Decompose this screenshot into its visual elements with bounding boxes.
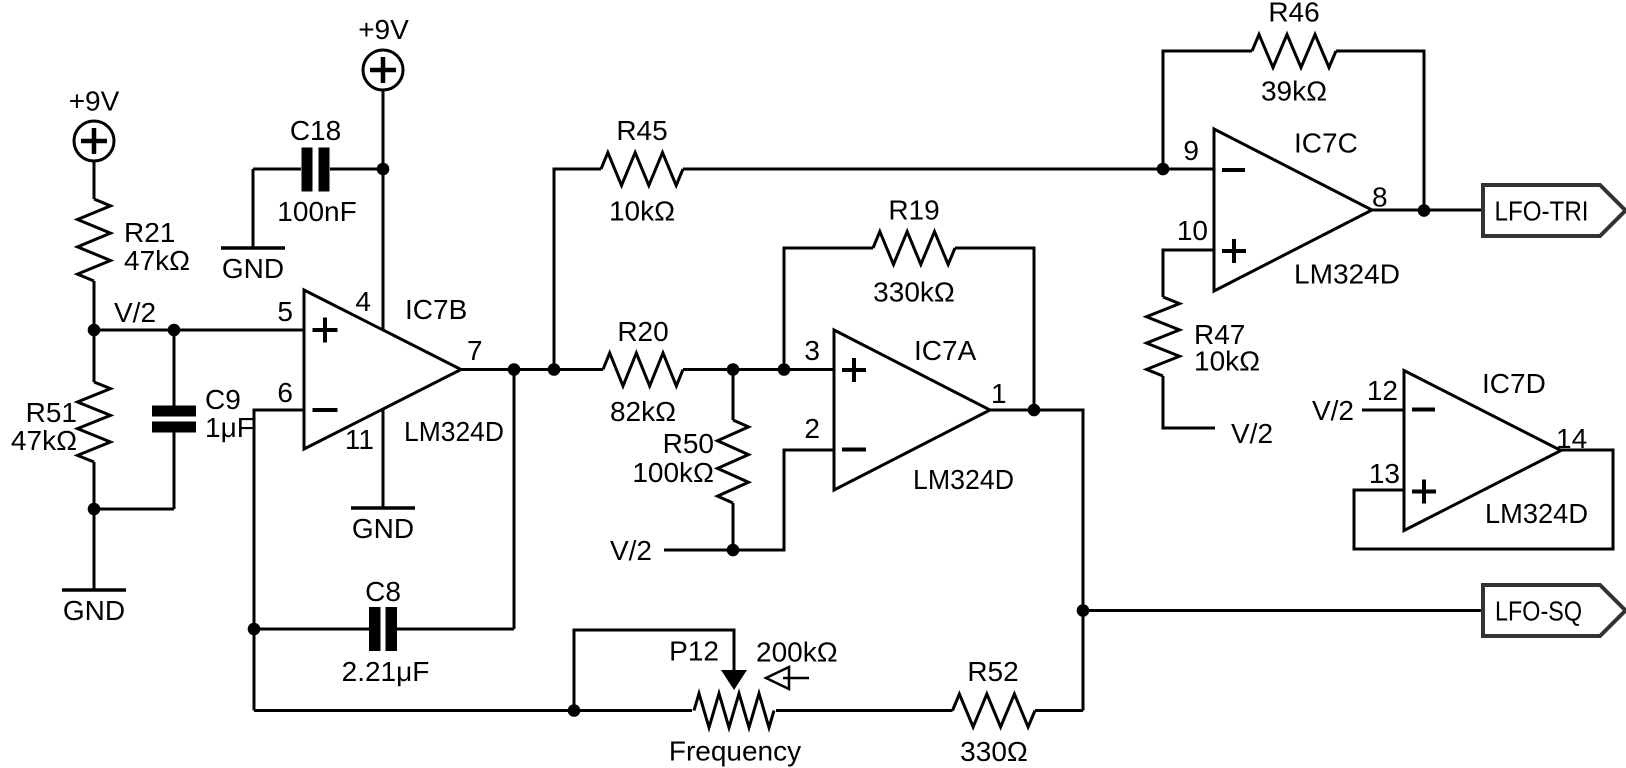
svg-text:11: 11 <box>345 424 374 455</box>
svg-text:330kΩ: 330kΩ <box>873 277 955 308</box>
svg-text:V/2: V/2 <box>114 297 156 328</box>
svg-text:13: 13 <box>1369 458 1400 489</box>
svg-text:LM324D: LM324D <box>1294 259 1400 290</box>
svg-text:82kΩ: 82kΩ <box>610 396 676 427</box>
svg-text:12: 12 <box>1367 375 1398 406</box>
svg-text:7: 7 <box>467 335 483 366</box>
svg-text:R19: R19 <box>888 195 939 226</box>
svg-text:LFO-TRI: LFO-TRI <box>1495 196 1589 227</box>
svg-text:+9V: +9V <box>358 14 409 45</box>
svg-text:V/2: V/2 <box>1231 418 1273 449</box>
svg-text:8: 8 <box>1372 182 1388 213</box>
svg-text:R21: R21 <box>124 217 175 248</box>
svg-text:C8: C8 <box>365 576 401 607</box>
svg-text:2.21μF: 2.21μF <box>342 656 430 687</box>
svg-text:10kΩ: 10kΩ <box>609 196 675 227</box>
svg-text:4: 4 <box>355 286 371 317</box>
svg-text:47kΩ: 47kΩ <box>124 245 190 276</box>
svg-text:6: 6 <box>277 377 293 408</box>
svg-text:100kΩ: 100kΩ <box>632 457 714 488</box>
svg-text:P12: P12 <box>669 636 719 667</box>
svg-text:LM324D: LM324D <box>913 464 1014 495</box>
svg-text:330Ω: 330Ω <box>960 736 1028 767</box>
svg-text:R46: R46 <box>1268 0 1319 28</box>
svg-text:3: 3 <box>804 335 820 366</box>
svg-text:+9V: +9V <box>69 86 120 117</box>
svg-text:200kΩ: 200kΩ <box>756 637 838 668</box>
svg-text:R20: R20 <box>617 316 668 347</box>
svg-text:C18: C18 <box>290 115 341 146</box>
svg-text:Frequency: Frequency <box>669 736 801 767</box>
svg-text:2: 2 <box>804 413 820 444</box>
svg-text:1: 1 <box>991 378 1007 409</box>
svg-text:R52: R52 <box>967 656 1018 687</box>
svg-text:GND: GND <box>222 253 284 284</box>
svg-text:100nF: 100nF <box>277 196 356 227</box>
svg-text:IC7A: IC7A <box>914 335 977 366</box>
svg-text:47kΩ: 47kΩ <box>11 425 77 456</box>
svg-text:LM324D: LM324D <box>404 416 504 447</box>
svg-text:10: 10 <box>1177 215 1208 246</box>
svg-text:LM324D: LM324D <box>1485 498 1588 529</box>
svg-text:R51: R51 <box>26 397 77 428</box>
svg-text:1μF: 1μF <box>205 412 254 443</box>
svg-text:R45: R45 <box>616 115 667 146</box>
svg-text:IC7B: IC7B <box>405 294 467 325</box>
svg-text:GND: GND <box>63 595 125 626</box>
svg-text:LFO-SQ: LFO-SQ <box>1495 596 1582 627</box>
svg-text:C9: C9 <box>205 384 241 415</box>
svg-text:V/2: V/2 <box>610 535 652 566</box>
svg-text:V/2: V/2 <box>1312 395 1354 426</box>
svg-text:10kΩ: 10kΩ <box>1194 346 1260 377</box>
svg-text:9: 9 <box>1183 135 1199 166</box>
svg-text:IC7C: IC7C <box>1294 128 1358 159</box>
svg-text:14: 14 <box>1556 423 1587 454</box>
svg-text:5: 5 <box>277 296 293 327</box>
svg-text:IC7D: IC7D <box>1482 368 1546 399</box>
svg-text:GND: GND <box>352 513 414 544</box>
svg-text:39kΩ: 39kΩ <box>1261 76 1327 107</box>
svg-text:R50: R50 <box>663 428 714 459</box>
